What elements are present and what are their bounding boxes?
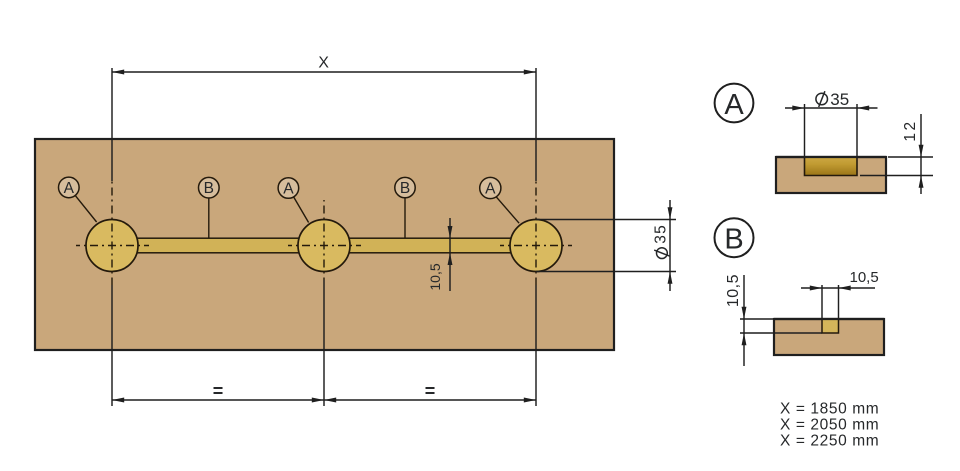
- svg-text:10,5: 10,5: [427, 263, 443, 290]
- arrow 12 top: [919, 145, 924, 157]
- leader A2: [294, 197, 309, 223]
- hole A3 (right 35mm hole): [510, 220, 562, 272]
- balloon B2: [395, 177, 415, 197]
- arrow 10,5 bottom: [448, 253, 453, 265]
- balloon B1: [199, 177, 220, 198]
- svg-text:B: B: [204, 180, 214, 197]
- extension line 12 bottom (detail A): [860, 175, 933, 177]
- dimension 12 line vertical (detail A): [920, 114, 922, 194]
- extension line left (X dim, top): [111, 68, 113, 181]
- centerline horizontal hole A3: [500, 245, 572, 247]
- svg-text:B: B: [724, 224, 743, 256]
- svg-text:10,5: 10,5: [725, 274, 742, 307]
- arrow dia35 bottom: [668, 272, 673, 284]
- svg-text:X = 2250 mm: X = 2250 mm: [780, 433, 879, 450]
- extension line 12 top (detail A): [888, 156, 933, 158]
- arrow 10,5 B left: [810, 286, 822, 291]
- extension line left (= dim, bottom): [111, 285, 113, 406]
- svg-text:A: A: [64, 180, 75, 197]
- extension line hole bottom tangent (dia 35): [536, 271, 676, 273]
- detail B groove (10.5mm slot section): [822, 319, 839, 333]
- svg-text:X: X: [318, 55, 329, 72]
- leader A3: [496, 197, 519, 223]
- centerline vertical hole A1: [111, 181, 113, 285]
- extension line dia35 right (detail A): [856, 104, 858, 156]
- extension line dia35 left (detail A): [804, 104, 806, 156]
- arrow X right: [524, 70, 536, 75]
- extension line middle (= dim, bottom): [323, 280, 325, 406]
- detail B top edge over groove: [774, 318, 884, 320]
- dimension 10,5 line (detail B top): [801, 287, 875, 289]
- extension line hole top tangent (dia 35): [536, 219, 676, 221]
- arrow 10,5 B right: [839, 286, 851, 291]
- detail A top edge over recess: [776, 156, 886, 158]
- svg-text:=: =: [425, 381, 436, 401]
- arrow 12 bottom: [919, 176, 924, 188]
- balloon A3: [480, 177, 501, 198]
- arrow 10,5 depth bottom: [742, 333, 747, 345]
- svg-text:X = 1850 mm: X = 1850 mm: [780, 401, 879, 418]
- centerline horizontal hole A1: [76, 245, 149, 247]
- svg-text:=: =: [213, 381, 224, 401]
- svg-text:X = 2050 mm: X = 2050 mm: [780, 417, 879, 434]
- arrow X left: [112, 70, 124, 75]
- svg-text:12: 12: [902, 119, 919, 141]
- extension line depth bottom (detail B left dim): [740, 332, 822, 334]
- groove (channel between holes, plan view): [112, 238, 536, 253]
- centerline vertical hole A3: [535, 181, 537, 285]
- detail balloon B: [715, 218, 754, 257]
- leader B2: [404, 198, 406, 238]
- centerline vertical hole A2: [323, 200, 325, 280]
- svg-text:35: 35: [830, 90, 849, 109]
- extension line 10,5 right (detail B top dim): [838, 285, 840, 318]
- arrow dia35 detail left: [792, 106, 804, 111]
- dimension = line bottom: [112, 399, 536, 401]
- hole A1 (left 35mm hole): [86, 220, 138, 272]
- extension line right (X dim, top): [535, 68, 537, 181]
- dimension dia35 line (detail A): [785, 107, 878, 109]
- label dia35 detail (drawn phi symbol): [816, 93, 828, 105]
- balloon A2: [278, 178, 299, 199]
- detail A block (section): [776, 157, 886, 193]
- dimension 10,5 groove line vertical: [449, 218, 451, 291]
- arrow = mid right: [324, 398, 336, 403]
- dimension 10,5 depth line vertical (detail B): [743, 275, 745, 366]
- balloon A1: [59, 177, 80, 198]
- svg-text:A: A: [283, 180, 294, 197]
- leader B1: [208, 198, 210, 238]
- extension line depth top (detail B left dim): [740, 318, 773, 320]
- board (main plan view panel): [35, 139, 614, 350]
- arrow = far left: [112, 398, 124, 403]
- detail balloon A: [715, 84, 754, 123]
- arrow = far right: [524, 398, 536, 403]
- leader A1: [75, 195, 96, 222]
- extension line 10,5 left (detail B top dim): [821, 285, 823, 318]
- arrow dia35 top: [668, 207, 673, 219]
- extension line right (= dim, bottom): [535, 285, 537, 406]
- svg-text:35: 35: [653, 224, 670, 244]
- label dia35 (rotated, drawn phi symbol): [653, 224, 670, 258]
- svg-text:A: A: [485, 180, 496, 197]
- svg-text:B: B: [400, 180, 410, 197]
- arrow dia35 detail right: [857, 106, 869, 111]
- dimension dia35 line vertical: [669, 200, 671, 291]
- arrow 10,5 top: [448, 226, 453, 238]
- centerline horizontal hole A2: [288, 245, 361, 247]
- detail A recess (35mm pocket section): [805, 157, 858, 176]
- detail B block (section): [774, 319, 884, 355]
- dimension X line: [112, 71, 536, 73]
- arrow = mid left: [312, 398, 324, 403]
- svg-text:10,5: 10,5: [850, 269, 879, 286]
- arrow 10,5 depth top: [742, 307, 747, 319]
- hole A2 (middle 35mm hole): [298, 220, 350, 272]
- svg-text:A: A: [724, 89, 744, 121]
